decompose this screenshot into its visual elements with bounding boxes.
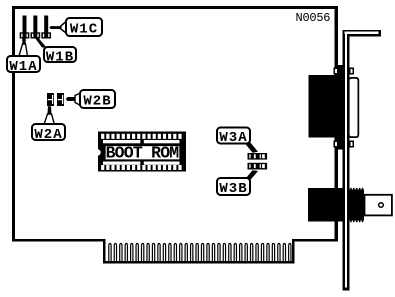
jumper W1B header box bbox=[31, 32, 41, 38]
BNC barrel bbox=[347, 190, 365, 221]
jumper W1B pin bar bbox=[33, 16, 37, 39]
svg-text:N0056: N0056 bbox=[296, 11, 331, 25]
label W1A bbox=[7, 56, 40, 75]
callout tail W1A bbox=[19, 38, 28, 57]
BOOT ROM chip U1 bbox=[94, 132, 186, 172]
svg-text:W3A: W3A bbox=[219, 130, 247, 146]
svg-text:W1B: W1B bbox=[46, 49, 74, 65]
jumper W1A header box bbox=[20, 32, 30, 38]
jumper W1C header box bbox=[41, 32, 51, 38]
jumper W3A block bbox=[248, 153, 268, 160]
edge connector right step bbox=[292, 239, 295, 264]
edge connector left step bbox=[103, 239, 106, 264]
svg-text:W1C: W1C bbox=[70, 22, 98, 38]
AUI jack post bottom right bbox=[349, 141, 354, 148]
svg-text:W1A: W1A bbox=[9, 59, 37, 75]
card right edge bbox=[335, 6, 339, 242]
callout tail W1B bbox=[35, 39, 46, 48]
callout tail W2A bbox=[44, 106, 55, 124]
bracket inner white slot bbox=[345, 32, 379, 288]
BNC tip body bbox=[365, 195, 392, 216]
jumper W1A pin bar bbox=[23, 16, 27, 39]
AUI jack post top right bbox=[349, 68, 354, 75]
card bottom edge right segment bbox=[292, 239, 338, 242]
BNC connector J2 body block bbox=[308, 188, 345, 222]
svg-text:W2B: W2B bbox=[83, 94, 111, 110]
card bottom edge left segment bbox=[12, 239, 106, 242]
AUI connector J1 body block bbox=[309, 75, 335, 138]
callout tail W1C bbox=[49, 21, 67, 34]
jumper W1C pin bar bbox=[44, 16, 48, 39]
label W2B bbox=[80, 90, 115, 110]
edge connector bottom line bbox=[103, 261, 295, 264]
jumper W2B block bbox=[57, 93, 64, 106]
svg-text:BOOT ROM: BOOT ROM bbox=[106, 144, 180, 163]
svg-text:W2A: W2A bbox=[34, 127, 62, 143]
AUI connector neck through bracket bbox=[335, 65, 346, 150]
svg-text:W3B: W3B bbox=[219, 181, 247, 197]
chip pin-1 notch bbox=[94, 149, 100, 155]
edge connector gold fingers bbox=[109, 244, 291, 263]
callout tail W3A bbox=[244, 142, 259, 153]
label W3A bbox=[217, 128, 250, 147]
AUI jack post bottom left bbox=[333, 141, 338, 148]
label W1C bbox=[66, 18, 102, 38]
card left edge bbox=[12, 6, 15, 242]
chip label plate bbox=[105, 145, 180, 160]
bracket top arm bbox=[343, 30, 382, 37]
BNC barrel ribs bbox=[347, 188, 363, 222]
jumper W2A block bbox=[47, 93, 54, 106]
jumper W3B block bbox=[248, 163, 268, 170]
AUI jack post top left bbox=[333, 68, 338, 75]
label W3B bbox=[217, 178, 250, 197]
card top edge bbox=[12, 6, 338, 9]
bracket vertical strip bbox=[343, 30, 350, 291]
AUI D-shell face bbox=[348, 77, 359, 138]
callout tail W2B bbox=[66, 93, 81, 106]
callout tail W3B bbox=[244, 170, 259, 181]
BNC center pin bbox=[379, 203, 384, 208]
label W2A bbox=[32, 124, 65, 143]
jumpers W1A W1B W1C bbox=[20, 16, 51, 39]
label W1B bbox=[44, 47, 76, 65]
